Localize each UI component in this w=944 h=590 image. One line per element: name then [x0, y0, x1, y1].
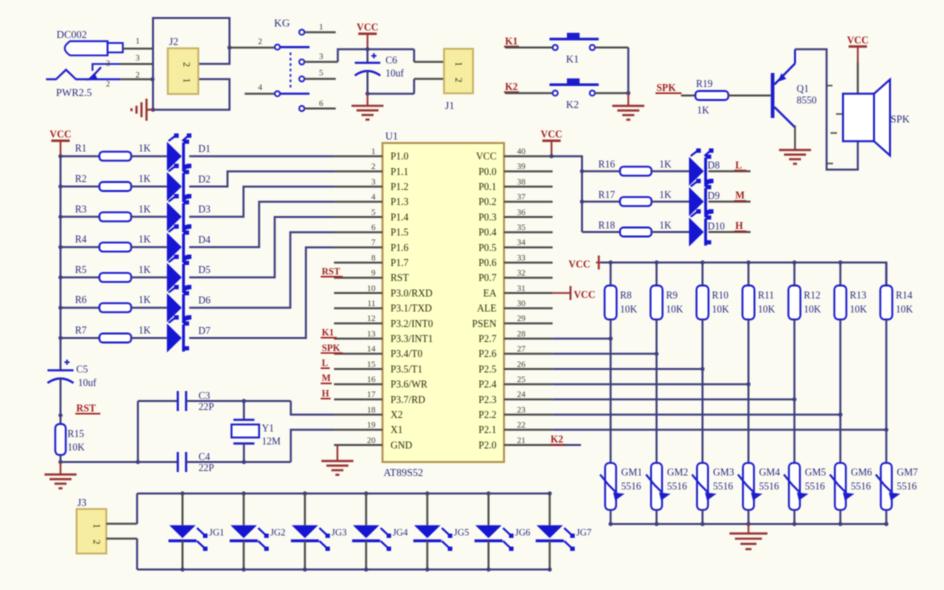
label J3 — [77, 498, 86, 509]
svg-text:R12: R12 — [804, 291, 821, 302]
wire U1 P2.3 to col 5 — [553, 398, 795, 400]
svg-text:R7: R7 — [75, 326, 87, 337]
wire GM1 to ground rail — [610, 510, 612, 524]
net label M at pin 16 — [321, 374, 332, 384]
svg-text:R11: R11 — [758, 291, 774, 302]
svg-text:JG1: JG1 — [209, 529, 225, 539]
svg-text:P3.5/T1: P3.5/T1 — [391, 364, 423, 375]
wire R1 to D1 — [131, 155, 167, 157]
node ground rail col 2 — [654, 522, 658, 526]
LED JG1 — [169, 494, 208, 570]
svg-text:VCC: VCC — [357, 23, 379, 34]
label D9 — [708, 191, 720, 202]
svg-text:P2.6: P2.6 — [478, 349, 496, 360]
resistor R4 1K — [75, 235, 152, 252]
svg-text:D1: D1 — [198, 144, 210, 155]
label D10 — [708, 221, 725, 232]
U1 pin 7 P1.6 — [334, 237, 409, 254]
node JG2 top — [242, 491, 246, 495]
LED D7 — [167, 315, 192, 352]
svg-text:37: 37 — [517, 192, 526, 202]
svg-text:P0.5: P0.5 — [478, 243, 496, 254]
svg-text:M: M — [735, 191, 745, 202]
svg-text:1K: 1K — [139, 326, 152, 337]
svg-text:1K: 1K — [139, 265, 152, 276]
node RST junction — [58, 413, 62, 417]
wire rail to R6 — [61, 307, 100, 309]
label D7 — [198, 326, 210, 337]
resistor R5 1K — [75, 265, 152, 282]
net label L — [734, 160, 746, 171]
svg-text:P3.1/TXD: P3.1/TXD — [391, 304, 432, 315]
wire K1 to K2 common — [626, 48, 630, 96]
svg-text:P3.2/INT0: P3.2/INT0 — [391, 319, 434, 330]
svg-text:R5: R5 — [75, 265, 87, 276]
wire GM4 to ground rail — [747, 510, 749, 524]
connector J3 — [77, 509, 107, 554]
U1 pin 13 P3.3/INT1 — [334, 328, 433, 345]
wire D5 to U1 pin 5 — [189, 217, 334, 277]
node JG4 top — [364, 491, 368, 495]
U1 pin 21 P2.0 — [478, 435, 552, 452]
svg-text:X1: X1 — [391, 425, 403, 436]
svg-text:P0.7: P0.7 — [478, 273, 496, 284]
svg-text:P2.3: P2.3 — [478, 395, 496, 406]
label JG5 — [454, 529, 470, 539]
connector J1 — [444, 49, 473, 94]
node ground rail col 4 — [746, 522, 750, 526]
svg-text:8: 8 — [371, 252, 375, 262]
node JG1 top — [180, 491, 184, 495]
svg-text:23: 23 — [517, 404, 526, 414]
svg-text:R15: R15 — [68, 429, 85, 440]
wire R12 to GM5 — [793, 320, 795, 463]
LED D4 — [167, 224, 192, 261]
photoresistor GM6 5516 — [830, 463, 855, 510]
svg-text:D9: D9 — [708, 191, 720, 202]
svg-text:P2.7: P2.7 — [478, 334, 496, 345]
wire rail to R4 — [61, 246, 100, 248]
capacitor C5 10uf — [48, 360, 74, 416]
svg-text:10K: 10K — [620, 305, 638, 316]
svg-text:H: H — [735, 221, 743, 232]
U1 pin 37 P0.2 — [478, 192, 552, 209]
svg-text:P1.0: P1.0 — [391, 152, 409, 163]
node rail R12 — [792, 260, 796, 264]
svg-text:1K: 1K — [659, 190, 672, 201]
svg-text:1: 1 — [181, 78, 191, 83]
node P2 junction col 6 — [838, 413, 842, 417]
ground at J2 (sideways) — [132, 99, 154, 121]
node JG3 bottom — [303, 567, 307, 571]
U1 pin 25 P2.4 — [478, 374, 552, 391]
node JG5 top — [425, 491, 429, 495]
label Y1 12M — [262, 424, 281, 448]
photoresistor GM1 5516 — [600, 463, 625, 510]
U1 pin 40 VCC — [476, 146, 553, 163]
svg-text:33: 33 — [517, 252, 526, 262]
wire rail to R3 — [61, 216, 100, 218]
svg-text:20: 20 — [367, 435, 376, 445]
wire R3 to D3 — [131, 216, 167, 218]
svg-text:26: 26 — [517, 359, 526, 369]
svg-text:1: 1 — [319, 22, 323, 32]
svg-text:R2: R2 — [75, 174, 87, 185]
svg-text:P0.2: P0.2 — [478, 197, 496, 208]
U1 pin 8 P1.7 — [334, 252, 409, 269]
VCC symbol above C6 — [357, 23, 379, 50]
U1 pin 10 P3.0/RXD — [334, 283, 432, 300]
U1 pin 14 P3.4/T0 — [334, 344, 422, 361]
svg-text:25: 25 — [517, 374, 526, 384]
node rail R2 — [58, 184, 62, 188]
U1 pin 17 P3.7/RD — [334, 389, 425, 406]
resistor R8 10K — [605, 263, 638, 320]
U1 pin 19 X1 — [334, 420, 403, 437]
switch KG poles and levers — [275, 45, 310, 97]
wire C6 top rail — [338, 49, 414, 62]
svg-text:22: 22 — [517, 420, 526, 430]
svg-text:DC002: DC002 — [57, 30, 87, 41]
svg-text:P1.1: P1.1 — [391, 167, 409, 178]
U1 pin 9 RST — [334, 268, 409, 285]
U1 pin 28 P2.7 — [478, 328, 552, 345]
svg-text:34: 34 — [517, 237, 526, 247]
label D3 — [198, 205, 210, 216]
wire C4 to X1 elbow — [186, 430, 334, 462]
U1 pin 6 P1.5 — [334, 222, 409, 239]
net label SPK at pin 14 — [321, 344, 343, 354]
label GM1 5516 — [621, 468, 642, 493]
resistor R19 1K — [695, 79, 728, 117]
svg-text:P3.6/WR: P3.6/WR — [391, 380, 428, 391]
wire J2 loop lower — [153, 79, 230, 110]
power jack DC002 label — [57, 30, 87, 41]
net label H — [734, 221, 746, 232]
svg-text:5516: 5516 — [621, 482, 641, 493]
wire GM5 to ground rail — [793, 510, 795, 524]
node JG5 bottom — [425, 567, 429, 571]
label C6 10uf — [386, 56, 405, 80]
wire U1 P2.1 to col 7 — [553, 429, 887, 431]
label D2 — [198, 174, 210, 185]
crystal Y1 12M — [232, 401, 260, 462]
svg-text:P1.3: P1.3 — [391, 197, 409, 208]
node JG2 bottom — [242, 567, 246, 571]
svg-text:SPK: SPK — [657, 83, 677, 94]
LED JG6 — [475, 494, 514, 570]
label C3 22P — [199, 391, 215, 413]
svg-text:22P: 22P — [199, 463, 215, 474]
wire R2 to D2 — [131, 186, 167, 188]
svg-text:5516: 5516 — [851, 482, 871, 493]
U1 pin 12 P3.2/INT0 — [334, 313, 433, 330]
svg-text:5516: 5516 — [667, 482, 687, 493]
U1 pin 34 P0.5 — [478, 237, 552, 254]
svg-text:KG: KG — [274, 18, 290, 30]
svg-text:12M: 12M — [262, 437, 281, 448]
wire D8 to net L — [708, 170, 750, 172]
svg-text:2: 2 — [106, 80, 110, 89]
svg-text:3: 3 — [319, 51, 323, 61]
net label K2 at pin 21 — [550, 435, 582, 446]
wire R5 to D5 — [131, 276, 167, 278]
LED JG5 — [413, 494, 452, 570]
node rail R3 — [58, 215, 62, 219]
U1 pin 24 P2.3 — [478, 389, 552, 406]
svg-text:1K: 1K — [139, 235, 152, 246]
wire SPK to R19 — [681, 95, 695, 97]
node JG1 bottom — [180, 567, 184, 571]
switch KG label — [274, 18, 290, 30]
node rail R5 — [58, 275, 62, 279]
ground below R15 — [45, 462, 77, 488]
node P2 junction col 2 — [654, 352, 658, 356]
net label RST left — [75, 404, 100, 415]
svg-text:R4: R4 — [75, 235, 87, 246]
label JG6 — [515, 529, 531, 539]
svg-text:P0.0: P0.0 — [478, 167, 496, 178]
svg-text:RST: RST — [391, 273, 409, 284]
U1 pin 16 P3.6/WR — [334, 374, 428, 391]
svg-text:P1.7: P1.7 — [391, 258, 409, 269]
node P2 junction col 7 — [884, 428, 888, 432]
svg-text:10K: 10K — [712, 305, 730, 316]
wire R8 to GM1 — [610, 320, 612, 463]
wire KG pole 4 — [245, 82, 275, 94]
node pin40 junction — [549, 154, 553, 158]
label GM5 5516 — [805, 468, 826, 493]
wire rail to R5 — [61, 276, 100, 278]
VCC symbol at U1 pin 40 — [541, 130, 563, 157]
svg-text:P0.4: P0.4 — [478, 228, 496, 239]
node JG6 top — [486, 491, 490, 495]
label D1 — [198, 144, 210, 155]
svg-text:15: 15 — [367, 359, 376, 369]
node R16 feed junction — [580, 169, 584, 173]
wire D9 to net M — [708, 201, 750, 203]
svg-text:10uf: 10uf — [386, 69, 405, 80]
resistor R14 10K — [880, 263, 913, 320]
svg-text:R1: R1 — [75, 144, 87, 155]
svg-text:JG7: JG7 — [576, 529, 592, 539]
svg-text:P1.5: P1.5 — [391, 228, 409, 239]
svg-text:R18: R18 — [598, 220, 615, 231]
wire D7 to U1 pin 7 — [189, 247, 334, 338]
svg-text:R8: R8 — [620, 291, 632, 302]
svg-text:P2.4: P2.4 — [478, 380, 496, 391]
wire C3 branch vertical — [137, 401, 139, 462]
svg-text:1K: 1K — [139, 295, 152, 306]
svg-text:JG4: JG4 — [393, 529, 409, 539]
resistor R2 1K — [75, 174, 152, 191]
label JG4 — [393, 529, 409, 539]
svg-text:1K: 1K — [659, 160, 672, 171]
svg-text:1K: 1K — [659, 220, 672, 231]
speaker pin ticks — [827, 86, 843, 164]
svg-text:P3.0/RXD: P3.0/RXD — [391, 288, 433, 299]
U1 pin 18 X2 — [334, 404, 403, 421]
LED D5 — [167, 255, 192, 292]
svg-text:2: 2 — [371, 161, 375, 171]
label AT89S52 — [384, 468, 424, 479]
wire D6 to U1 pin 6 — [189, 232, 334, 308]
svg-text:D5: D5 — [198, 265, 210, 276]
node rail R1 — [58, 154, 62, 158]
svg-text:RST: RST — [76, 404, 96, 415]
svg-text:GND: GND — [391, 440, 413, 451]
svg-text:1K: 1K — [139, 204, 152, 215]
svg-text:22P: 22P — [199, 402, 215, 413]
wire J3 pin2 riser — [106, 539, 137, 570]
svg-text:1: 1 — [371, 146, 375, 156]
wire U1 P2.6 to col 2 — [553, 353, 657, 355]
switch KG contact 3 — [299, 51, 338, 65]
ground below Q1 — [779, 150, 811, 164]
svg-text:30: 30 — [517, 298, 526, 308]
svg-text:31: 31 — [517, 283, 526, 293]
photoresistor GM4 5516 — [738, 463, 763, 510]
node rail R9 — [654, 260, 658, 264]
svg-text:38: 38 — [517, 176, 526, 186]
resistor R6 1K — [75, 295, 152, 312]
svg-text:J3: J3 — [77, 498, 86, 509]
photoresistor GM5 5516 — [784, 463, 809, 510]
U1 pin 20 GND — [334, 435, 412, 452]
VCC symbol above speaker — [847, 36, 869, 63]
svg-text:R19: R19 — [696, 79, 713, 90]
VCC symbol top-left — [50, 130, 72, 157]
svg-text:32: 32 — [517, 268, 526, 278]
U1 pin 26 P2.5 — [478, 359, 552, 376]
wire to J1 pin 2 — [414, 79, 444, 94]
wire GM ground rail — [611, 523, 887, 525]
svg-text:R14: R14 — [896, 291, 913, 302]
wire R11 to GM4 — [747, 320, 749, 463]
svg-text:EA: EA — [483, 288, 497, 299]
U1 pin 38 P0.1 — [478, 176, 552, 193]
svg-text:ALE: ALE — [477, 304, 496, 315]
label JG7 — [576, 529, 592, 539]
svg-text:13: 13 — [367, 328, 376, 338]
label GM7 5516 — [897, 468, 918, 493]
svg-text:10: 10 — [367, 283, 376, 293]
power jack DC002 body — [65, 41, 123, 55]
svg-text:2: 2 — [453, 78, 463, 83]
net label L at pin 15 — [321, 359, 330, 369]
U1 pin 1 P1.0 — [334, 146, 409, 163]
photoresistor GM2 5516 — [646, 463, 671, 510]
svg-text:D7: D7 — [198, 326, 210, 337]
node rail R13 — [838, 260, 842, 264]
wire VCC to speaker top — [857, 62, 859, 94]
node rail R7 — [58, 336, 62, 340]
svg-text:D6: D6 — [198, 296, 210, 307]
svg-text:JG5: JG5 — [454, 529, 470, 539]
svg-text:P1.2: P1.2 — [391, 182, 409, 193]
svg-text:36: 36 — [517, 207, 526, 217]
svg-text:9: 9 — [371, 268, 375, 278]
node ground rail col 7 — [884, 522, 888, 526]
svg-text:16: 16 — [367, 374, 376, 384]
wire U1 P2.5 to col 3 — [553, 368, 703, 370]
node ground rail col 6 — [838, 522, 842, 526]
svg-text:3: 3 — [106, 59, 110, 68]
svg-text:10K: 10K — [758, 305, 776, 316]
wire C6 bottom rail — [365, 92, 414, 96]
svg-text:2: 2 — [181, 62, 191, 67]
svg-text:P2.0: P2.0 — [478, 440, 496, 451]
photoresistor GM3 5516 — [692, 463, 717, 510]
capacitor C6 — [355, 49, 381, 93]
svg-text:P0.3: P0.3 — [478, 212, 496, 223]
node JG7 bottom — [548, 567, 552, 571]
node JG7 top — [548, 491, 552, 495]
capacitor C3 22P — [178, 391, 186, 411]
U1 pin 23 P2.2 — [478, 404, 552, 421]
svg-text:PWR2.5: PWR2.5 — [56, 88, 92, 99]
wire R10 to GM3 — [702, 320, 704, 463]
wire R6 to D6 — [131, 307, 167, 309]
op-amp U1 AT89S52 body — [383, 143, 505, 462]
svg-text:1: 1 — [91, 524, 101, 529]
resistor R1 1K — [75, 144, 152, 161]
wire C3 to X2 elbow — [186, 401, 334, 415]
node ground rail col 3 — [700, 522, 704, 526]
wire JG bottom rail — [137, 569, 551, 571]
net label K1 at pin 13 — [321, 329, 337, 339]
wire R4 to D4 — [131, 246, 167, 248]
jack pin 3 wire — [106, 53, 153, 69]
ground below K2 — [612, 93, 644, 120]
svg-text:P1.4: P1.4 — [391, 212, 409, 223]
wire R17 to D9 — [652, 201, 690, 203]
wire R16 to D8 — [652, 170, 690, 172]
wire J3 pin1 riser — [106, 494, 137, 524]
svg-text:10K: 10K — [804, 305, 822, 316]
svg-text:R17: R17 — [598, 190, 615, 201]
svg-text:19: 19 — [367, 420, 376, 430]
svg-text:5516: 5516 — [713, 482, 733, 493]
svg-text:P2.1: P2.1 — [478, 425, 496, 436]
LED D10 — [689, 209, 714, 246]
wire Q1 emitter to speaker — [795, 49, 858, 169]
ground below C6 — [352, 94, 384, 120]
wire rail to R2 — [61, 186, 100, 188]
U1 pin 29 PSEN — [472, 313, 553, 330]
wire U1 P2.7 to col 1 — [553, 338, 611, 340]
node J2 pin2 junction — [227, 46, 231, 50]
LED D8 — [689, 148, 714, 185]
jack pin 1 wire — [123, 36, 153, 49]
svg-text:5516: 5516 — [897, 482, 917, 493]
node R15 bottom junction — [58, 460, 62, 464]
wire GM3 to ground rail — [702, 510, 704, 524]
node ground rail col 1 — [609, 522, 613, 526]
node crystal bottom junction — [242, 460, 246, 464]
wire GM2 to ground rail — [656, 510, 658, 524]
net label RST at pin 9 — [321, 268, 343, 278]
resistor R15 10K — [55, 415, 85, 462]
svg-text:10K: 10K — [666, 305, 684, 316]
svg-text:6: 6 — [371, 222, 375, 232]
node JG6 bottom — [486, 567, 490, 571]
U1 pin 2 P1.1 — [334, 161, 409, 178]
svg-text:VCC: VCC — [847, 36, 869, 47]
wire D2 to U1 pin 2 — [189, 171, 334, 186]
speaker SPK — [843, 80, 890, 156]
svg-text:21: 21 — [517, 435, 526, 445]
